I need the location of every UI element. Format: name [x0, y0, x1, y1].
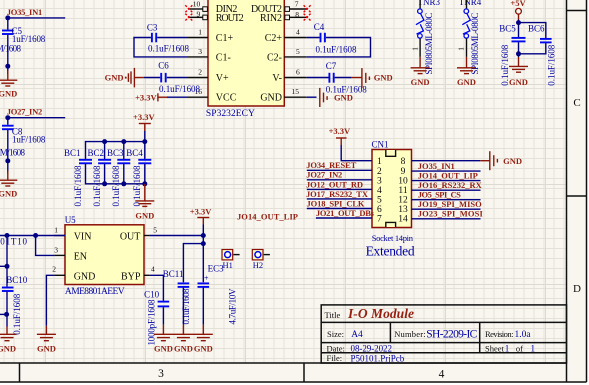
svg-text:3: 3	[54, 245, 58, 254]
pin 10 DIN2	[190, 0, 238, 15]
svg-text:Socket 14pin: Socket 14pin	[372, 233, 414, 243]
svg-text:JO27_IN2: JO27_IN2	[7, 107, 42, 117]
svg-text:GND: GND	[411, 77, 430, 87]
wire CN1 pin4	[307, 188, 372, 190]
svg-text:1: 1	[531, 343, 536, 353]
capacitor BC10	[2, 275, 28, 335]
svg-text:BC5: BC5	[499, 23, 516, 33]
wire U5 GND pin to ground	[46, 275, 54, 326]
ic U? SP3232ECY body	[206, 0, 284, 119]
pin 9 ROUT2	[190, 10, 244, 24]
svg-text:7: 7	[295, 0, 299, 8]
wire BC5/BC6 bottoms	[516, 42, 546, 57]
wire CN1 pin6	[307, 208, 372, 210]
svg-text:GND: GND	[105, 73, 124, 83]
svg-text:Title: Title	[325, 310, 341, 320]
svg-text:1000pF/1608: 1000pF/1608	[147, 299, 157, 346]
capacitor EC3 (electrolytic)	[198, 263, 238, 324]
svg-text:TNR3: TNR3	[418, 0, 441, 7]
regulator U5 AME8801AEEV body	[65, 215, 144, 297]
power ground at pin15	[320, 88, 353, 107]
svg-text:10M/1608: 10M/1608	[0, 44, 22, 54]
pin 15 GND	[260, 87, 306, 104]
svg-text:V-: V-	[272, 73, 282, 84]
wire +5V to BC5/BC6 tops	[516, 20, 546, 39]
capacitor BC6	[528, 24, 557, 86]
svg-text:Extended: Extended	[366, 243, 415, 258]
power ground JO27 column	[0, 171, 17, 199]
no-ERC marker pin 7	[304, 5, 311, 12]
power ground right of C7	[351, 68, 392, 88]
wire C8 to ground node	[5, 130, 10, 174]
svg-text:0.1uF/1608: 0.1uF/1608	[316, 45, 358, 55]
svg-text:JO5_SPI_CS: JO5_SPI_CS	[418, 190, 461, 200]
connector CN1 body	[366, 140, 415, 259]
svg-text:VCC: VCC	[216, 93, 237, 104]
svg-text:3: 3	[198, 47, 202, 56]
svg-text:9: 9	[401, 167, 406, 177]
svg-text:4: 4	[296, 27, 300, 36]
svg-text:V+: V+	[216, 73, 229, 84]
svg-text:C7: C7	[326, 61, 337, 71]
svg-text:+: +	[204, 273, 209, 282]
wire CN1 pin7	[316, 217, 372, 219]
capacitor C3	[147, 22, 190, 53]
svg-text:1uF/1608: 1uF/1608	[12, 135, 46, 145]
svg-text:C4: C4	[314, 22, 325, 32]
svg-text:JO12_OUT_RD: JO12_OUT_RD	[306, 179, 363, 189]
svg-text:BC6: BC6	[528, 24, 545, 34]
capacitor C8	[2, 126, 46, 145]
svg-text:1: 1	[505, 343, 510, 353]
svg-text:601T10: 601T10	[0, 236, 28, 246]
svg-text:C: C	[573, 97, 580, 109]
svg-text:BC2: BC2	[88, 148, 105, 158]
wire net JO35_IN1	[5, 15, 65, 29]
svg-text:A4: A4	[351, 330, 363, 340]
svg-text:H2: H2	[253, 260, 263, 270]
wire pin15 stub	[307, 96, 317, 98]
svg-text:08-29-2022: 08-29-2022	[351, 344, 393, 354]
svg-text:6: 6	[377, 205, 382, 215]
pin 16 VCC	[188, 87, 237, 104]
wire C5 to ground node	[5, 35, 10, 74]
svg-text:SPI0805ML-080C: SPI0805ML-080C	[424, 13, 434, 75]
varistor TNR3	[410, 0, 440, 75]
svg-text:JO35_IN1: JO35_IN1	[418, 161, 455, 171]
pin 4 C2+	[265, 27, 307, 44]
capacitor BC3	[107, 148, 130, 207]
svg-text:JO27_IN2: JO27_IN2	[306, 170, 342, 180]
svg-text:+3.3V: +3.3V	[329, 126, 351, 136]
wire C4 loop pin4 to pin5	[307, 38, 371, 57]
svg-text:8: 8	[295, 10, 299, 19]
U5 pin 3 EN	[54, 245, 87, 262]
wire CN1 pin10	[412, 180, 481, 182]
svg-text:P50101.PrjPcb: P50101.PrjPcb	[351, 353, 405, 363]
power +5V	[510, 0, 526, 20]
svg-text:GND: GND	[37, 343, 56, 353]
power ground triple C10/BC11/EC3	[154, 325, 213, 354]
wire branch to BC11	[183, 244, 203, 283]
power ground BC10	[0, 327, 16, 354]
svg-text:GND: GND	[0, 343, 16, 353]
svg-text:BC1: BC1	[64, 148, 81, 158]
wire OUT net to +3.3V and caps	[149, 225, 206, 283]
svg-text:GND: GND	[74, 271, 96, 282]
svg-text:1.0a: 1.0a	[515, 330, 532, 340]
svg-text:U5: U5	[65, 215, 76, 225]
svg-text:BYP: BYP	[121, 271, 141, 282]
svg-text:2: 2	[198, 67, 202, 76]
no-ERC marker pin 8	[304, 14, 311, 21]
svg-text:RIN2: RIN2	[260, 13, 282, 24]
svg-text:GND: GND	[334, 93, 353, 103]
svg-text:0.1uF/1608: 0.1uF/1608	[148, 44, 190, 54]
svg-text:ROUT2: ROUT2	[216, 13, 244, 24]
svg-text:TNR4: TNR4	[459, 0, 482, 7]
wire left column down to BC10	[0, 236, 10, 287]
wire +3.3V to CN1 pin1	[341, 145, 372, 161]
pin 8 RIN2	[260, 10, 308, 24]
svg-text:1: 1	[54, 226, 58, 235]
svg-text:I-O Module: I-O Module	[347, 306, 414, 321]
svg-text:+3.3V: +3.3V	[190, 207, 212, 217]
power ground TNR3	[411, 57, 430, 87]
svg-text:GND: GND	[260, 93, 282, 104]
power ground left of C6	[105, 68, 144, 88]
no-ERC marker pin 9	[185, 14, 192, 21]
svg-text:1: 1	[457, 47, 466, 51]
pin 6 V-	[272, 67, 306, 84]
wire CN1 pin11	[412, 189, 481, 191]
power +3.3V at VCC	[135, 93, 167, 103]
svg-text:H1: H1	[223, 260, 233, 270]
svg-text:GND: GND	[174, 343, 193, 353]
title block	[321, 305, 566, 364]
mounting hole H2	[252, 250, 270, 271]
svg-text:6: 6	[296, 67, 300, 76]
CN1 pin numbers right 8-14	[398, 157, 408, 224]
svg-text:14: 14	[398, 215, 408, 225]
svg-text:C6: C6	[158, 60, 169, 70]
wire CN1 pin5	[307, 198, 372, 200]
power +3.3V above BC4	[133, 112, 155, 131]
power ground TNR4	[457, 57, 476, 87]
svg-text:8: 8	[401, 157, 406, 167]
wire BC1-BC4 bottoms to ground rail	[86, 164, 148, 186]
svg-text:11: 11	[398, 186, 407, 196]
svg-text:4: 4	[377, 186, 382, 196]
svg-text:4.7uF/10V: 4.7uF/10V	[227, 288, 237, 325]
capacitor C6	[158, 60, 200, 94]
wire VIN net	[0, 233, 65, 238]
svg-text:GND: GND	[154, 343, 173, 353]
capacitor C7	[326, 61, 368, 94]
wire CN1 pin13	[412, 208, 481, 210]
svg-text:JO35_IN1: JO35_IN1	[7, 7, 42, 17]
capacitor C5	[2, 26, 46, 44]
svg-text:0.1uF/1608: 0.1uF/1608	[111, 165, 121, 207]
svg-text:9: 9	[197, 10, 201, 19]
wire +3.3V to pin16	[167, 96, 188, 98]
svg-text:JO23_SPI_MOSI: JO23_SPI_MOSI	[418, 209, 484, 219]
wire +3.3V rail to BC1-BC4 tops	[86, 131, 148, 160]
svg-text:1: 1	[377, 157, 382, 167]
no-ERC marker pin 10	[185, 5, 192, 12]
svg-text:1: 1	[198, 27, 202, 36]
power ground JO35 column	[0, 71, 17, 99]
wire BC10 bottom to ground	[0, 292, 9, 327]
pin 7 DOUT2	[251, 0, 308, 15]
svg-text:VIN: VIN	[74, 232, 92, 243]
svg-text:GND: GND	[503, 156, 522, 166]
svg-text:1: 1	[410, 47, 419, 51]
svg-text:BC10: BC10	[6, 275, 28, 285]
power +3.3V above U5 OUT	[190, 207, 212, 225]
svg-text:SPI0805ML-080C: SPI0805ML-080C	[470, 13, 480, 75]
svg-text:D: D	[573, 283, 581, 295]
svg-text:GND: GND	[374, 73, 393, 83]
svg-text:5: 5	[153, 226, 157, 235]
varistor TNR4	[457, 0, 482, 75]
svg-text:15: 15	[292, 87, 300, 96]
svg-text:JO21_OUT_DBs: JO21_OUT_DBs	[316, 208, 375, 218]
svg-text:JO14_OUT_LIP: JO14_OUT_LIP	[418, 170, 478, 180]
svg-text:GND: GND	[509, 77, 528, 87]
power ground CN1 pin8	[480, 151, 522, 170]
wire CN1 pin9	[412, 170, 481, 172]
svg-text:BC11: BC11	[163, 269, 184, 279]
pin 5 C2-	[267, 47, 307, 64]
svg-text:C2+: C2+	[265, 33, 283, 44]
svg-text:0.1uF/1608: 0.1uF/1608	[159, 84, 201, 94]
svg-text:AME8801AEEV: AME8801AEEV	[65, 287, 125, 297]
svg-text:+3.3V: +3.3V	[133, 112, 155, 122]
wire net JO27_IN2	[5, 115, 65, 125]
svg-text:0.1uF/1608: 0.1uF/1608	[92, 165, 102, 207]
svg-text:CN1: CN1	[372, 140, 389, 150]
svg-text:C1-: C1-	[216, 52, 231, 63]
capacitor BC1	[64, 148, 92, 207]
wire CN1 pin8 to ground	[412, 160, 481, 162]
svg-text:Date:: Date:	[327, 343, 345, 353]
svg-text:SH-2209-IC: SH-2209-IC	[426, 328, 477, 340]
capacitor C10	[144, 289, 169, 345]
svg-text:5: 5	[296, 47, 300, 56]
svg-text:3: 3	[377, 176, 382, 186]
svg-text:0.1uF/1608: 0.1uF/1608	[547, 44, 557, 86]
svg-text:BC4: BC4	[126, 148, 143, 158]
wire pin6 to C7 and C7 to gnd	[307, 77, 352, 79]
svg-text:12: 12	[398, 195, 408, 205]
svg-text:Revision:: Revision:	[485, 329, 514, 339]
wire CN1 pin3	[307, 179, 372, 181]
svg-text:+5V: +5V	[510, 0, 526, 8]
capacitor C4	[314, 22, 357, 55]
svg-text:SP3232ECY: SP3232ECY	[206, 109, 255, 119]
wire CN1 pin12	[412, 199, 481, 201]
svg-text:GND: GND	[0, 189, 17, 199]
svg-text:File:: File:	[327, 353, 343, 363]
U5 pin 2 GND	[52, 265, 95, 283]
svg-text:4: 4	[151, 265, 155, 274]
power ground below BC4 rail	[135, 184, 154, 221]
wire EN tie to VIN	[36, 236, 55, 256]
pin 3 C1-	[188, 47, 231, 64]
svg-text:3: 3	[158, 368, 164, 380]
capacitor BC2	[88, 148, 112, 207]
power ground U5 pin2	[37, 326, 56, 354]
wire CN1 pin2	[307, 169, 372, 171]
svg-text:C10: C10	[144, 289, 160, 299]
svg-text:Sheet: Sheet	[485, 343, 505, 353]
U5 pin 4 BYP	[121, 265, 155, 283]
svg-text:10: 10	[193, 0, 201, 8]
wire CN1 pin14	[412, 218, 481, 220]
svg-text:C3: C3	[147, 22, 158, 32]
svg-text:+3.3V: +3.3V	[135, 93, 157, 103]
capacitor BC11	[163, 269, 191, 325]
svg-text:13: 13	[398, 205, 408, 215]
svg-text:JO34_RESET: JO34_RESET	[306, 160, 356, 170]
svg-text:C2-: C2-	[267, 52, 282, 63]
U5 pin 5 OUT	[120, 226, 157, 243]
svg-text:Size:: Size:	[327, 329, 344, 339]
wire C3 loop pin1 to pin3	[134, 38, 188, 57]
svg-text:GND: GND	[0, 88, 17, 98]
svg-text:4: 4	[439, 369, 445, 381]
svg-text:JO14_OUT_LIP: JO14_OUT_LIP	[237, 212, 298, 222]
wire C10 BC11 EC3 bottoms to ground	[163, 288, 203, 325]
wire BYP to C10	[149, 275, 163, 300]
pin 2 V+	[188, 67, 229, 84]
wire C6 to pin 2	[144, 77, 188, 79]
svg-text:JO16_RS232_RX: JO16_RS232_RX	[418, 180, 483, 190]
svg-text:GND: GND	[135, 210, 154, 220]
svg-text:JO18_SPI_CLK: JO18_SPI_CLK	[307, 198, 365, 208]
svg-text:OUT: OUT	[120, 232, 141, 243]
svg-text:0.1uF/1608: 0.1uF/1608	[12, 293, 22, 335]
U5 pin 1 VIN	[54, 226, 91, 243]
svg-text:of: of	[516, 343, 523, 353]
mounting hole H1	[222, 250, 240, 271]
svg-text:GND: GND	[194, 343, 213, 353]
capacitor BC4	[126, 148, 151, 207]
svg-text:EN: EN	[74, 252, 87, 263]
svg-text:2: 2	[377, 167, 382, 177]
svg-text:10: 10	[398, 176, 408, 186]
svg-text:7: 7	[377, 215, 382, 225]
svg-text:10M/1608: 10M/1608	[0, 148, 26, 158]
svg-text:2: 2	[52, 265, 56, 274]
svg-text:JO19_SPI_MISO: JO19_SPI_MISO	[418, 199, 482, 209]
power ground BC5/BC6	[509, 57, 528, 87]
pin 1 C1+	[188, 27, 233, 44]
svg-text:0.1uF/1608: 0.1uF/1608	[73, 165, 83, 207]
svg-text:Number:: Number:	[394, 329, 425, 339]
svg-text:JO17_RS232_TX: JO17_RS232_TX	[306, 189, 369, 199]
CN1 pin numbers left 1-7	[377, 157, 382, 224]
capacitor BC5	[499, 23, 525, 85]
power +3.3V at CN1 pin1	[329, 126, 351, 145]
svg-text:5: 5	[377, 195, 382, 205]
svg-text:BC3: BC3	[107, 148, 124, 158]
svg-text:C1+: C1+	[216, 33, 234, 44]
svg-text:GND: GND	[457, 77, 476, 87]
